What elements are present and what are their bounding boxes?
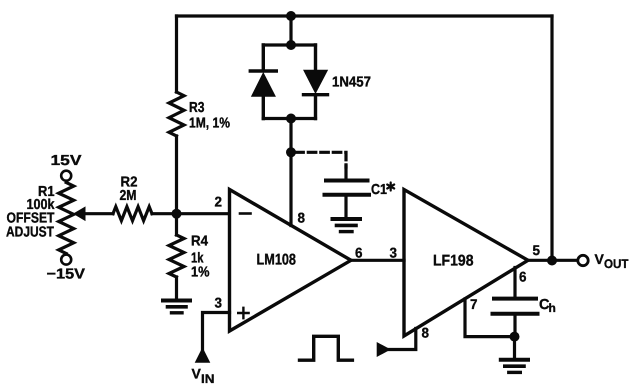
op-amp U1 LM108 triangle [230, 190, 352, 332]
wire: to ground [513, 337, 516, 358]
wire: pin 5 output to VOUT [528, 259, 578, 262]
VIN terminal triangle [196, 349, 209, 362]
wire: Ch bottom stub [513, 316, 516, 337]
svg-text:−15V: −15V [47, 267, 86, 283]
ground (C1) [333, 217, 361, 221]
wire: pin 8 logic input [389, 329, 416, 350]
diode D2 (right, pointing down) [304, 45, 328, 119]
svg-text:6: 6 [519, 269, 527, 285]
svg-text:8: 8 [298, 210, 306, 226]
svg-text:5: 5 [533, 242, 541, 258]
capacitor Ch [493, 299, 538, 314]
junction dot output [547, 256, 557, 266]
wire: R2 to node A [84, 212, 177, 215]
svg-text:LF198: LF198 [433, 253, 474, 270]
junction dot Ch/pin7 [510, 332, 520, 342]
capacitor C1 [325, 181, 370, 195]
svg-text:7: 7 [470, 296, 478, 312]
wire: pin 3 input [203, 313, 230, 351]
svg-text:3: 3 [390, 245, 398, 261]
resistor R3 [169, 92, 184, 136]
svg-text:3: 3 [215, 295, 223, 311]
wire: pin 7 wire [465, 299, 515, 337]
diode D1 (left, pointing up) [250, 45, 276, 119]
wire: LM108 output to LF198 pin 3 [351, 259, 404, 262]
wire: diode box rails [263, 45, 315, 119]
junction dot C1 tap [286, 147, 296, 157]
svg-text:6: 6 [355, 245, 363, 261]
wire: right vertical feedback [550, 16, 553, 261]
logic input arrowhead [378, 343, 390, 355]
asterisk for C1 [387, 183, 394, 191]
wire: dashed link to C1 [296, 152, 346, 167]
pulse waveform symbol [300, 336, 353, 360]
svg-text:IN: IN [201, 372, 215, 386]
svg-text:h: h [549, 301, 556, 315]
op-amp U2 LF198 triangle [404, 190, 528, 337]
svg-text:8: 8 [422, 325, 430, 341]
wire: C1 top stub [344, 166, 347, 179]
svg-text:2M: 2M [120, 188, 137, 204]
plus sign (non-inverting input) [238, 308, 248, 318]
svg-text:1M, 1%: 1M, 1% [189, 116, 230, 132]
terminal circle 15V [61, 171, 71, 181]
wire: pin 8 vertical (top rail down to LM108 top edge) [289, 16, 292, 226]
wire: pin 2 wire node A to LM108 [177, 212, 229, 215]
svg-text:15V: 15V [51, 153, 82, 169]
resistor R4 [169, 214, 184, 299]
junction dot diode box top [286, 40, 296, 50]
terminal circle VOUT [578, 255, 588, 265]
svg-text:V: V [595, 251, 605, 267]
svg-text:R4: R4 [191, 234, 208, 250]
svg-text:2: 2 [215, 194, 223, 210]
svg-text:1N457: 1N457 [332, 75, 371, 91]
potentiometer R1 wiper arrow [74, 207, 85, 220]
junction dot top rail [286, 11, 296, 21]
resistor R2 [113, 207, 152, 221]
svg-text:ADJUST: ADJUST [6, 225, 54, 241]
terminal circle -15V [61, 255, 71, 265]
ground (R4) [163, 299, 190, 303]
minus sign (inverting input) [240, 212, 251, 215]
svg-text:1%: 1% [191, 265, 210, 281]
potentiometer R1 element [59, 183, 74, 254]
svg-text:LM108: LM108 [257, 252, 297, 269]
node A junction dot [172, 209, 182, 219]
wire: R3 bottom to node A [175, 136, 178, 214]
svg-text:C1: C1 [371, 182, 387, 198]
ground (Ch) [501, 358, 528, 362]
wire: left vertical upper (top rail to R3) [175, 16, 178, 92]
svg-text:V: V [192, 366, 202, 382]
wire: top feedback rail [177, 14, 553, 17]
svg-text:OUT: OUT [604, 257, 629, 271]
wire: C1 to ground [344, 197, 347, 217]
wire: pin 6 to Ch [513, 268, 516, 297]
junction dot diode box bottom [286, 114, 296, 124]
svg-text:R3: R3 [189, 100, 205, 116]
